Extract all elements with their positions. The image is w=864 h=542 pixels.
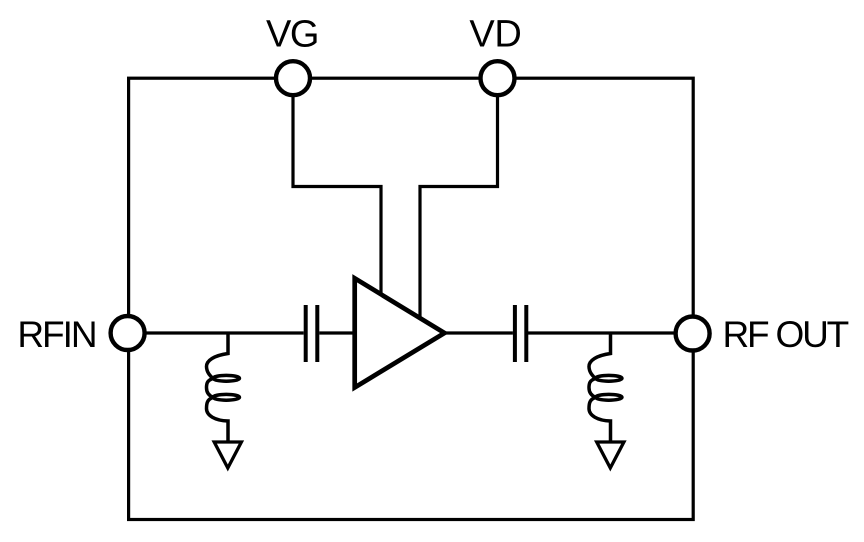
svg-text:RF OUT: RF OUT: [723, 314, 849, 355]
svg-text:VG: VG: [266, 13, 318, 55]
svg-text:RFIN: RFIN: [17, 314, 95, 355]
svg-text:VD: VD: [469, 13, 521, 55]
